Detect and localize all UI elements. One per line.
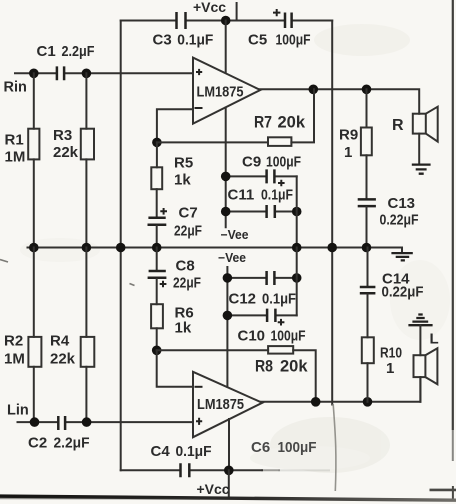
capacitor C9 bbox=[267, 169, 285, 186]
wire Lin input bbox=[18, 421, 194, 423]
svg-text:LM1875: LM1875 bbox=[197, 85, 244, 101]
resistor R7 bbox=[268, 137, 291, 146]
svg-text:0.1μF: 0.1μF bbox=[177, 32, 213, 49]
junction feedback node A bbox=[152, 138, 162, 148]
svg-text:22k: 22k bbox=[50, 351, 76, 368]
svg-text:R8: R8 bbox=[255, 358, 273, 376]
ground above speaker L bbox=[408, 315, 432, 356]
label C8 22uF bbox=[173, 258, 201, 292]
svg-text:C3: C3 bbox=[153, 32, 172, 49]
svg-text:−Vee: −Vee bbox=[218, 251, 246, 265]
svg-text:L: L bbox=[430, 331, 439, 348]
resistor R3 bbox=[81, 73, 94, 247]
label C11 0.1uF bbox=[228, 187, 294, 204]
svg-text:+Vcc: +Vcc bbox=[197, 481, 230, 497]
label C12 0.1uF bbox=[229, 291, 297, 308]
svg-text:C2: C2 bbox=[28, 435, 47, 452]
svg-text:1M: 1M bbox=[4, 351, 25, 368]
label speaker R bbox=[392, 117, 404, 134]
wire top supply rail bbox=[121, 20, 333, 22]
label +Vcc bottom bbox=[197, 481, 230, 497]
junction C12 left bbox=[223, 273, 233, 283]
ground below speaker R bbox=[412, 165, 431, 174]
label R8 20k bbox=[255, 358, 308, 376]
wire inverting input U1 bbox=[157, 109, 193, 142]
label C4 0.1uF bbox=[151, 443, 212, 460]
svg-text:R2: R2 bbox=[4, 333, 23, 350]
svg-text:0.22μF: 0.22μF bbox=[380, 212, 419, 229]
svg-text:C4: C4 bbox=[151, 443, 171, 460]
wire feedback row bbox=[157, 89, 314, 142]
wire C9 row bbox=[226, 175, 297, 177]
label R4 22k bbox=[50, 333, 76, 368]
junction output zobel lower bbox=[363, 397, 373, 407]
capacitor C4 bbox=[181, 463, 190, 477]
+Vcc terminal bottom bbox=[228, 470, 230, 496]
wire feedback row lower bbox=[157, 350, 316, 402]
svg-text:R7: R7 bbox=[254, 114, 272, 132]
wire +Vcc to U2 bbox=[228, 419, 230, 470]
label R3 22k bbox=[53, 127, 79, 161]
svg-text:0.1μF: 0.1μF bbox=[262, 291, 296, 308]
ground at center line end bbox=[391, 248, 412, 261]
capacitor C3 bbox=[177, 12, 186, 29]
capacitor C11 bbox=[267, 205, 275, 218]
svg-text:2.2μF: 2.2μF bbox=[62, 43, 95, 60]
resistor R10 bbox=[362, 337, 374, 402]
resistor R4 bbox=[81, 248, 95, 423]
label R9 1 bbox=[339, 127, 358, 162]
svg-text:−Vee: −Vee bbox=[221, 228, 249, 242]
junction center right rail bbox=[327, 243, 337, 253]
junction center C7 bbox=[152, 243, 162, 253]
svg-text:C7: C7 bbox=[179, 205, 198, 222]
wire left vertical rail bbox=[120, 21, 122, 471]
svg-text:C6: C6 bbox=[251, 439, 270, 456]
svg-text:20k: 20k bbox=[278, 114, 306, 132]
svg-text:C8: C8 bbox=[176, 258, 195, 275]
svg-text:R1: R1 bbox=[5, 132, 24, 149]
label C9 100uF bbox=[242, 154, 301, 171]
capacitor C5 bbox=[273, 9, 292, 28]
junction C12 right bbox=[292, 273, 302, 283]
svg-text:LM1875: LM1875 bbox=[197, 397, 244, 413]
label C3 0.1uF bbox=[153, 32, 214, 49]
svg-text:R10: R10 bbox=[380, 345, 402, 362]
junction Lin-R4 bbox=[82, 417, 92, 427]
capacitor C2 bbox=[58, 416, 65, 430]
svg-text:R: R bbox=[392, 117, 404, 134]
label +Vcc top bbox=[193, 0, 226, 15]
svg-text:C12: C12 bbox=[229, 291, 257, 308]
capacitor C10 bbox=[267, 309, 284, 326]
label C10 100uF bbox=[238, 328, 306, 345]
label C7 22uF bbox=[174, 205, 202, 240]
label R6 1k bbox=[175, 305, 194, 337]
label R5 1k bbox=[174, 155, 193, 189]
svg-text:Lin: Lin bbox=[7, 403, 29, 419]
svg-text:Rin: Rin bbox=[4, 80, 27, 96]
label C13 0.22uF bbox=[380, 195, 419, 229]
junction center zobel rail bbox=[362, 243, 372, 253]
node +Vcc junction bbox=[221, 16, 231, 26]
svg-text:1: 1 bbox=[386, 360, 394, 377]
label R10 1 bbox=[380, 345, 402, 378]
wire -Vee to U2 bbox=[226, 267, 228, 387]
junction C11 right bbox=[292, 207, 302, 217]
wire output U1 bbox=[259, 89, 419, 113]
junction C10 left bbox=[223, 311, 233, 321]
resistor R9 bbox=[361, 89, 372, 198]
junction C9 left bbox=[221, 172, 231, 182]
label Rin bbox=[4, 80, 27, 96]
svg-text:1k: 1k bbox=[174, 172, 191, 189]
resistor R2 bbox=[28, 248, 41, 423]
svg-text:0.22μF: 0.22μF bbox=[382, 284, 424, 301]
label U1 LM1875 bbox=[197, 85, 244, 101]
wire C11 row bbox=[226, 211, 297, 213]
junction center R1 bbox=[29, 243, 39, 253]
wire mid right rail lower bbox=[296, 248, 298, 316]
wire +Vcc to U1 bbox=[225, 21, 227, 74]
svg-text:22k: 22k bbox=[53, 144, 79, 161]
junction center left rail bbox=[116, 243, 126, 253]
junction output feedback bbox=[309, 85, 319, 95]
capacitor C1 bbox=[57, 66, 64, 80]
label -Vee upper bbox=[221, 228, 249, 242]
resistor R8 bbox=[268, 346, 293, 354]
junction Rin-R3 bbox=[82, 69, 92, 79]
junction +Vcc bottom bbox=[224, 466, 234, 476]
svg-text:1M: 1M bbox=[5, 149, 26, 166]
speaker L bbox=[414, 348, 438, 402]
op-amp U1 LM1875 bbox=[193, 58, 260, 124]
junction output feedback lower bbox=[311, 397, 321, 407]
capacitor C7 bbox=[148, 208, 168, 248]
wire C10 row bbox=[227, 314, 296, 316]
label speaker L bbox=[430, 331, 439, 348]
wire right vertical rail bbox=[331, 21, 333, 405]
svg-text:20k: 20k bbox=[280, 358, 308, 376]
svg-text:1k: 1k bbox=[175, 320, 192, 337]
resistor R6 bbox=[151, 304, 163, 350]
wire C12 row bbox=[227, 277, 296, 279]
svg-text:R5: R5 bbox=[174, 155, 193, 172]
capacitor C12 bbox=[267, 271, 275, 285]
svg-text:R3: R3 bbox=[53, 127, 72, 144]
label U2 LM1875 bbox=[197, 397, 244, 413]
wire bottom supply rail bbox=[121, 469, 329, 471]
junction output zobel bbox=[362, 85, 372, 95]
label -Vee lower bbox=[218, 251, 246, 265]
svg-text:+Vcc: +Vcc bbox=[193, 0, 226, 15]
label C6 100uF bbox=[251, 439, 317, 456]
resistor R1 bbox=[28, 73, 39, 247]
svg-text:C10: C10 bbox=[238, 328, 266, 345]
label R7 20k bbox=[254, 114, 306, 132]
label R1 1M bbox=[5, 132, 26, 166]
junction C11 left bbox=[221, 207, 231, 217]
label C2 2.2uF bbox=[28, 435, 90, 452]
wire Rin input bbox=[15, 72, 193, 74]
label C1 2.2uF bbox=[37, 43, 95, 60]
junction feedback node B bbox=[152, 346, 162, 356]
svg-text:22μF: 22μF bbox=[174, 223, 202, 240]
svg-text:C9: C9 bbox=[242, 154, 261, 171]
svg-text:1: 1 bbox=[344, 144, 352, 161]
wire output U2 bbox=[261, 377, 420, 402]
svg-text:0.1μF: 0.1μF bbox=[176, 443, 212, 460]
label Lin bbox=[7, 403, 29, 419]
svg-text:2.2μF: 2.2μF bbox=[54, 435, 90, 452]
svg-text:100μF: 100μF bbox=[278, 439, 317, 456]
+Vcc terminal top bbox=[236, 3, 238, 21]
svg-text:R4: R4 bbox=[50, 333, 70, 350]
svg-text:C1: C1 bbox=[37, 43, 56, 60]
svg-text:R9: R9 bbox=[339, 127, 358, 144]
wire center common line bbox=[28, 247, 403, 249]
wire inverting input U2 bbox=[157, 350, 193, 387]
resistor R5 bbox=[151, 142, 162, 216]
svg-text:100μF: 100μF bbox=[271, 328, 306, 345]
junction Lin-R2 bbox=[30, 417, 40, 427]
svg-text:100μF: 100μF bbox=[266, 154, 301, 171]
wire mid right rail bbox=[296, 176, 298, 247]
junction center R3 bbox=[82, 243, 92, 253]
junction Rin-R1 bbox=[29, 69, 39, 79]
label C14 0.22uF bbox=[382, 271, 424, 301]
label R2 1M bbox=[4, 333, 25, 368]
svg-text:100μF: 100μF bbox=[276, 32, 311, 49]
svg-text:C11: C11 bbox=[228, 187, 255, 204]
wire -Vee from U1 bbox=[225, 108, 227, 228]
capacitor C8 bbox=[148, 248, 167, 305]
capacitor C14 bbox=[360, 248, 376, 338]
svg-text:C13: C13 bbox=[388, 195, 416, 212]
svg-text:C5: C5 bbox=[248, 32, 267, 49]
op-amp U2 LM1875 bbox=[193, 372, 262, 437]
speaker R bbox=[413, 107, 438, 165]
svg-text:0.1μF: 0.1μF bbox=[261, 187, 293, 204]
junction center mid rail bbox=[292, 243, 302, 253]
label C5 100uF bbox=[248, 32, 311, 49]
svg-text:22μF: 22μF bbox=[173, 275, 201, 292]
capacitor C13 bbox=[358, 199, 376, 247]
